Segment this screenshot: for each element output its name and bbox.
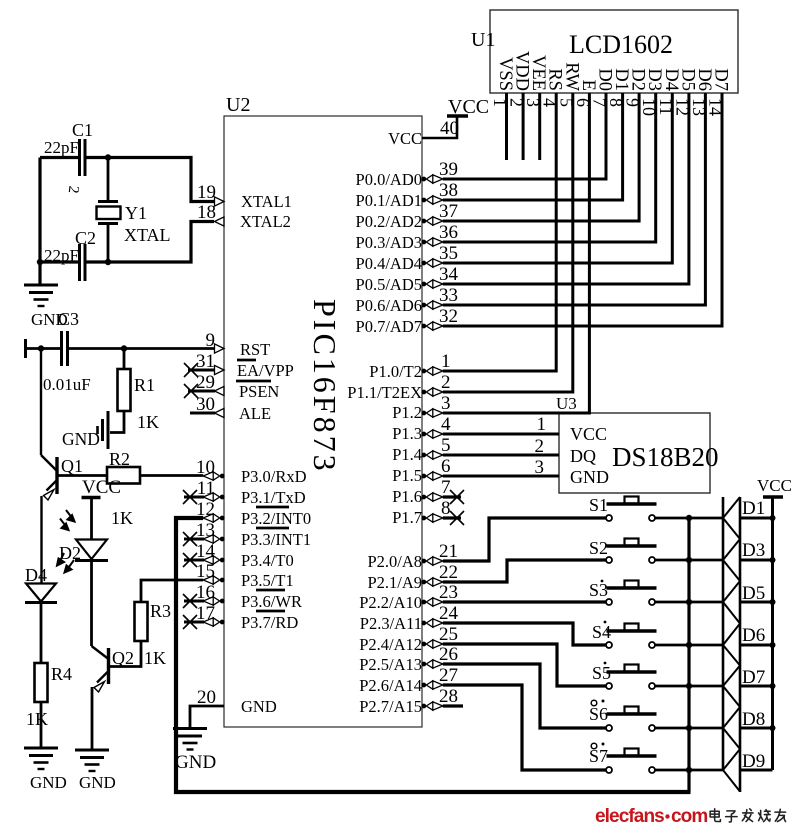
- wire S7 right to diode D9: [656, 769, 724, 772]
- pin diamond P2.6 pin 27: [421, 681, 442, 689]
- svg-text:Q1: Q1: [61, 456, 83, 476]
- junction dots on VCC rail: [770, 515, 776, 731]
- wire Q1 base to R2: [57, 474, 107, 477]
- resistor R1: [118, 369, 131, 411]
- wire C2 row to XTAL2: [40, 222, 214, 263]
- wire R1 top: [123, 349, 126, 370]
- wire LCD D2 to P0.2: [443, 93, 639, 221]
- svg-text:R2: R2: [109, 449, 130, 469]
- wire LCD D6 to P0.6: [443, 93, 706, 305]
- node dot RST/R1: [121, 345, 127, 351]
- svg-text:GND: GND: [62, 429, 100, 449]
- svg-text:S2: S2: [589, 538, 608, 558]
- svg-text:22: 22: [439, 562, 458, 583]
- pin diamond P0.7 pin 32: [421, 322, 442, 330]
- svg-text:P2.7/A15: P2.7/A15: [359, 697, 422, 716]
- svg-text:VCC: VCC: [570, 424, 607, 444]
- svg-text:S3: S3: [589, 580, 608, 600]
- pin diamond P1.3 pin 4: [421, 430, 442, 438]
- svg-text:39: 39: [439, 159, 458, 180]
- svg-text:D8: D8: [742, 709, 765, 730]
- svg-text:6: 6: [441, 456, 451, 477]
- capacitor C3: [62, 331, 68, 366]
- svg-text:PSEN: PSEN: [239, 382, 279, 401]
- svg-text:P1.6: P1.6: [392, 487, 422, 506]
- button S4: [606, 624, 657, 649]
- wire R3 to Q2 base: [110, 641, 141, 667]
- svg-text:P2.5/A13: P2.5/A13: [359, 655, 422, 674]
- ground chip: [173, 729, 207, 750]
- wire R4 to ground: [40, 702, 43, 748]
- input arrow pin9 RST: [215, 344, 225, 353]
- wire RST node down to Q1 collector: [40, 349, 42, 456]
- wire key bus vertical: [687, 518, 690, 792]
- power VCC bar (pin40): [447, 114, 468, 117]
- svg-text:P0.5/AD5: P0.5/AD5: [356, 275, 422, 294]
- wire S2 right to diode D3: [656, 559, 724, 562]
- svg-text:P3.3/INT1: P3.3/INT1: [241, 530, 311, 549]
- ground crystal: [24, 285, 58, 306]
- wire VCC to D2: [90, 498, 93, 540]
- svg-text:P3.0/RxD: P3.0/RxD: [241, 467, 307, 486]
- pin numbers right side: [439, 118, 459, 707]
- svg-text:Y1: Y1: [125, 203, 147, 223]
- pin diamond P2.2 pin 23: [421, 598, 442, 606]
- wire S6 right to diode D8: [656, 727, 724, 730]
- wire P1.7 stub: [443, 516, 461, 519]
- button S6: [606, 707, 657, 732]
- svg-text:26: 26: [439, 644, 458, 665]
- LCD rotated pin names: [495, 51, 731, 92]
- wire P1.5 to DS18B20 GND pin3: [443, 475, 559, 478]
- pin diamond P1.2 pin 3: [421, 409, 442, 417]
- wire LCD pin3 VEE stub: [538, 93, 541, 160]
- output arrow pin29: [215, 386, 225, 395]
- resistor R2: [107, 467, 140, 484]
- svg-text:VCC: VCC: [757, 476, 792, 495]
- button S1: [606, 497, 657, 522]
- wire Q1 emitter down to D4: [40, 496, 42, 584]
- wire S3 right to diode D5: [656, 601, 724, 604]
- svg-text:P1.1/T2EX: P1.1/T2EX: [347, 383, 422, 402]
- svg-text:Q2: Q2: [112, 648, 134, 668]
- input arrow pin31: [215, 365, 225, 374]
- svg-text:DQ: DQ: [570, 446, 596, 466]
- diamond P3.1 pin11: [203, 493, 224, 501]
- pin numbers left side: [196, 182, 216, 708]
- pin diamond P1.6 pin 7: [421, 493, 442, 501]
- svg-text:P2.2/A10: P2.2/A10: [359, 593, 422, 612]
- svg-text:P0.6/AD6: P0.6/AD6: [356, 296, 422, 315]
- svg-text:P0.0/AD0: P0.0/AD0: [356, 170, 422, 189]
- pin diamond P1.7 pin 8: [421, 514, 442, 522]
- svg-text:1K: 1K: [137, 412, 159, 432]
- stub P3.1 pin11: [184, 496, 204, 499]
- wire pin40 to VCC: [422, 116, 457, 138]
- DS18B20 U3 body: [559, 413, 710, 493]
- button S5: [606, 665, 657, 690]
- svg-text:U2: U2: [226, 94, 250, 116]
- svg-text:1: 1: [441, 351, 451, 372]
- wire LCD D5 to P0.5: [443, 93, 689, 284]
- button S7: [606, 749, 657, 774]
- svg-text:18: 18: [197, 202, 216, 223]
- svg-text:1K: 1K: [144, 648, 166, 668]
- svg-text:P3.4/T0: P3.4/T0: [241, 551, 294, 570]
- node dot rail C2: [37, 259, 43, 265]
- diamond P3.4 pin14: [203, 556, 224, 564]
- svg-text:D4: D4: [25, 565, 47, 585]
- pin diamond P2.7 pin 28: [421, 702, 442, 710]
- svg-text:P1.4: P1.4: [392, 445, 422, 464]
- svg-text:P1.5: P1.5: [392, 466, 422, 485]
- wire LCD D3 to P0.3: [443, 93, 656, 242]
- svg-text:C2: C2: [75, 228, 96, 248]
- svg-text:elecfans: elecfans: [595, 806, 664, 827]
- wire S5 right to diode D7: [656, 685, 724, 688]
- resistor R4: [35, 663, 48, 702]
- svg-text:D7: D7: [742, 667, 765, 688]
- diode column verticals: [722, 497, 725, 771]
- diamond P3.5 pin15: [203, 576, 224, 584]
- svg-text:VCC: VCC: [82, 477, 121, 498]
- svg-text:3: 3: [535, 457, 545, 478]
- svg-text:GND: GND: [570, 467, 609, 487]
- stub P3.7 pin17: [184, 621, 204, 624]
- wire left rail crystal: [38, 158, 41, 286]
- LED D2: [75, 540, 108, 561]
- wire S4 right to diode D6: [656, 644, 724, 647]
- wire P2.5/A13 to S6: [443, 664, 607, 728]
- svg-text:R4: R4: [51, 664, 72, 684]
- diode row wires to VCC rail: [740, 518, 773, 770]
- diamond P3.0 pin10: [203, 472, 224, 480]
- svg-text:33: 33: [439, 285, 458, 306]
- svg-text:U1: U1: [471, 29, 495, 51]
- svg-text:GND: GND: [30, 773, 67, 792]
- overbars for active-low labels: [236, 360, 289, 611]
- wire LCD RS to P1.0: [443, 93, 556, 371]
- svg-text:P2.6/A14: P2.6/A14: [359, 676, 422, 695]
- sideways ground at R1: [98, 411, 109, 449]
- pin diamond P1.1 pin 2: [421, 388, 442, 396]
- Chinese characters dian zi fa shao you: [710, 809, 785, 822]
- svg-text:D3: D3: [742, 540, 765, 561]
- wire LCD RW to P1.1: [443, 93, 573, 392]
- wire D2 to Q2 collector: [90, 561, 93, 647]
- svg-text:P1.3: P1.3: [392, 424, 422, 443]
- wire bottom bus to P3.2: [176, 518, 691, 792]
- svg-text:19: 19: [197, 182, 216, 203]
- svg-text:27: 27: [439, 665, 458, 686]
- VCC rail right: [771, 497, 774, 770]
- LED D2 incident arrows: [60, 510, 75, 530]
- pin diamond P2.0 pin 21: [421, 557, 442, 565]
- diode zigzag: [723, 497, 740, 792]
- wire pin20 to ground: [190, 706, 224, 729]
- pin diamond P0.6 pin 33: [421, 301, 442, 309]
- diamond P3.6 pin16: [203, 597, 224, 605]
- capacitor C1: [80, 139, 86, 176]
- pin diamond P0.3 pin 36: [421, 238, 442, 246]
- junction dots on key bus: [686, 515, 692, 773]
- svg-text:P1.7: P1.7: [392, 508, 422, 527]
- ground R4: [24, 748, 58, 769]
- svg-text:VCC: VCC: [388, 129, 422, 148]
- diamond P3.7 pin17: [203, 618, 224, 626]
- wire LCD D0 to P0.0: [443, 93, 606, 179]
- svg-text:P0.2/AD2: P0.2/AD2: [356, 212, 422, 231]
- button S3: [606, 581, 657, 606]
- logo elecfans.com: [595, 806, 707, 827]
- chip internal labels right: [347, 129, 422, 716]
- wire Y1 bottom: [107, 224, 110, 263]
- wire Q2 emitter to ground: [91, 687, 94, 750]
- svg-text:D1: D1: [742, 498, 765, 519]
- svg-text:GND: GND: [175, 752, 216, 773]
- transistor Q2: [92, 646, 109, 692]
- svg-text:XTAL2: XTAL2: [240, 212, 291, 231]
- svg-text:1: 1: [537, 414, 547, 435]
- resistor R3: [135, 602, 148, 641]
- svg-text:5: 5: [441, 435, 451, 456]
- svg-text:34: 34: [439, 264, 459, 285]
- svg-text:D6: D6: [742, 625, 765, 646]
- svg-text:S7: S7: [589, 746, 608, 766]
- stub P3.4 pin14: [184, 559, 204, 562]
- svg-text:com: com: [671, 806, 707, 827]
- output arrow pin18: [215, 217, 225, 226]
- svg-text:P0.7/AD7: P0.7/AD7: [356, 317, 422, 336]
- svg-text:1K: 1K: [111, 508, 133, 528]
- wire Y1 top: [107, 158, 110, 202]
- pin diamond P0.2 pin 37: [421, 217, 442, 225]
- svg-text:0.01uF: 0.01uF: [43, 375, 91, 394]
- stub pin30: [190, 412, 215, 415]
- node dot C2/Y1: [105, 259, 111, 265]
- svg-text:8: 8: [441, 498, 451, 519]
- chip U2 body: [224, 116, 422, 727]
- pin diamond P1.4 pin 5: [421, 451, 442, 459]
- svg-text:P2.0/A8: P2.0/A8: [367, 552, 422, 571]
- svg-text:4: 4: [441, 414, 451, 435]
- input arrow pin19: [215, 197, 225, 206]
- power VCC bar mid: [82, 496, 101, 499]
- svg-text:35: 35: [439, 243, 458, 264]
- diode labels: [742, 498, 765, 772]
- wire P2.3/A11 to S4: [443, 623, 607, 645]
- pin diamond P2.3 pin 24: [421, 619, 442, 627]
- wire LCD D1 to P0.1: [443, 93, 623, 200]
- svg-text:EA/VPP: EA/VPP: [237, 361, 294, 380]
- svg-text:S5: S5: [592, 663, 611, 683]
- no-connect X P1.6: [450, 490, 464, 504]
- pin diamond P0.0 pin 39: [421, 175, 442, 183]
- wire R2 to P3.0: [140, 474, 203, 477]
- pin diamond P2.5 pin 26: [421, 660, 442, 668]
- svg-text:37: 37: [439, 201, 458, 222]
- svg-text:25: 25: [439, 624, 458, 645]
- diamond P3.3 pin13: [203, 535, 224, 543]
- wire P2.1/A9 to S2: [443, 560, 607, 582]
- svg-text:S4: S4: [592, 622, 611, 642]
- svg-text:RST: RST: [240, 340, 270, 359]
- svg-text:28: 28: [439, 686, 458, 707]
- pin diamond P0.5 pin 34: [421, 280, 442, 288]
- wire LCD pin1 VSS stub: [505, 93, 508, 160]
- output arrow pin30: [215, 408, 225, 417]
- svg-text:36: 36: [439, 222, 458, 243]
- svg-text:P2.1/A9: P2.1/A9: [367, 573, 422, 592]
- pin diamond P1.5 pin 6: [421, 472, 442, 480]
- svg-text:P3.1/TxD: P3.1/TxD: [241, 488, 306, 507]
- wire R1 bottom to side ground: [110, 411, 124, 433]
- stub pin29: [188, 390, 215, 393]
- svg-text:7: 7: [441, 477, 451, 498]
- wire D4 to R4: [40, 603, 43, 664]
- capacitor C2: [80, 244, 86, 281]
- LCD1602 U1 body: [490, 10, 738, 93]
- wire P2.2/A10 to S3: [443, 600, 607, 603]
- svg-text:U3: U3: [556, 394, 577, 413]
- wire P1.6 stub: [443, 495, 461, 498]
- LED D4 arrows: [57, 553, 74, 573]
- pin diamond P2.4 pin 25: [421, 640, 442, 648]
- transistor Q1: [41, 455, 57, 500]
- crystal Y1: [97, 202, 121, 224]
- svg-text:R3: R3: [150, 601, 171, 621]
- LCD rotated pin numbers: [490, 98, 726, 116]
- wire LCD pin2 VDD stub: [522, 93, 525, 160]
- chip internal labels left: [237, 192, 311, 716]
- svg-text:1K: 1K: [26, 709, 48, 729]
- svg-text:21: 21: [439, 541, 458, 562]
- svg-text:D5: D5: [742, 583, 765, 604]
- stub P3.6 pin16: [184, 600, 204, 603]
- svg-text:XTAL: XTAL: [124, 225, 171, 245]
- LED D4: [25, 584, 57, 603]
- wire S1 right to diode D1: [656, 517, 724, 520]
- pin diamond P1.0 pin 1: [421, 367, 442, 375]
- pin diamond P0.1 pin 38: [421, 196, 442, 204]
- pin diamond P0.4 pin 35: [421, 259, 442, 267]
- wire P2.7/A15 stub: [443, 704, 463, 707]
- svg-text:GND: GND: [79, 773, 116, 792]
- svg-text:3: 3: [441, 393, 451, 414]
- svg-text:P3.6/WR: P3.6/WR: [241, 592, 302, 611]
- button S2: [606, 539, 657, 564]
- svg-text:2: 2: [535, 436, 545, 457]
- wire LCD D7 to P0.7: [443, 93, 722, 326]
- node dot RST/Q1: [38, 345, 44, 351]
- svg-text:P1.0/T2: P1.0/T2: [369, 362, 422, 381]
- svg-text:P3.2/INT0: P3.2/INT0: [241, 509, 311, 528]
- C3 left terminal: [24, 339, 27, 358]
- wire P2.4/A12 to S5: [443, 644, 607, 686]
- no-connect X P1.7: [450, 511, 464, 525]
- svg-text:24: 24: [439, 603, 459, 624]
- svg-text:P0.4/AD4: P0.4/AD4: [356, 254, 422, 273]
- svg-text:XTAL1: XTAL1: [241, 192, 292, 211]
- diamond P3.2 pin12: [203, 514, 224, 522]
- ground Q2: [75, 750, 109, 771]
- svg-text:D9: D9: [742, 751, 765, 772]
- svg-text:R1: R1: [134, 375, 155, 395]
- svg-text:P2.3/A11: P2.3/A11: [360, 614, 422, 633]
- svg-text:S6: S6: [589, 704, 608, 724]
- svg-text:S1: S1: [589, 495, 608, 515]
- svg-text:38: 38: [439, 180, 458, 201]
- wire P2.6/A14 to S7: [443, 685, 607, 770]
- svg-text:PIC16F873: PIC16F873: [307, 299, 343, 474]
- svg-text:C3: C3: [58, 309, 79, 329]
- svg-text:P3.7/RD: P3.7/RD: [241, 613, 298, 632]
- stub pin31: [188, 369, 215, 372]
- wire P2.0/A8 to S1: [443, 518, 607, 561]
- svg-text:ALE: ALE: [239, 404, 271, 423]
- stub P3.3 pin13: [184, 538, 204, 541]
- wire LCD D4 to P0.4: [443, 93, 673, 263]
- wire P1.3 to DS18B20 VCC pin1: [443, 433, 559, 436]
- node dot C1/Y1: [105, 154, 111, 160]
- svg-text:P0.1/AD1: P0.1/AD1: [356, 191, 422, 210]
- svg-text:LCD1602: LCD1602: [569, 30, 673, 59]
- power VCC bar right: [763, 495, 783, 498]
- svg-text:22pF: 22pF: [44, 138, 79, 157]
- svg-text:P2.4/A12: P2.4/A12: [359, 635, 422, 654]
- svg-text:C1: C1: [72, 120, 93, 140]
- svg-text:GND: GND: [241, 697, 277, 716]
- wire LCD E to P1.2: [443, 93, 590, 413]
- svg-text:2: 2: [441, 372, 451, 393]
- wire P3.5 to R3: [141, 580, 203, 602]
- svg-text:P3.5/T1: P3.5/T1: [241, 571, 294, 590]
- svg-text:D7: D7: [711, 68, 731, 91]
- wire P1.4 to DS18B20 DQ pin2: [443, 454, 559, 457]
- svg-text:P1.2: P1.2: [392, 403, 422, 422]
- wire C1 row to XTAL1: [40, 158, 214, 202]
- svg-text:32: 32: [439, 306, 458, 327]
- pin diamond P2.1 pin 22: [421, 578, 442, 586]
- wire RST row: [26, 347, 215, 350]
- svg-text:VCC: VCC: [448, 96, 489, 118]
- svg-text:DS18B20: DS18B20: [612, 442, 719, 472]
- svg-text:P0.3/AD3: P0.3/AD3: [356, 233, 422, 252]
- svg-text:23: 23: [439, 582, 458, 603]
